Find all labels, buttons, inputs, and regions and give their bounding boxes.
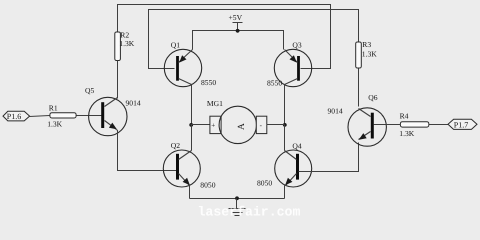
transistor Q1 <box>164 41 216 87</box>
resistor R3 <box>356 40 378 68</box>
wire: ground rail <box>190 198 285 200</box>
svg-text:8050: 8050 <box>200 181 215 190</box>
svg-text:R1: R1 <box>49 103 58 112</box>
wire: net A - R2 top across to Q3 base <box>118 5 331 69</box>
wire: R2 bottom to Q5 collector <box>117 61 119 99</box>
wire: Q4 collector to motor right node <box>284 125 286 151</box>
wire: Q5 emitter to Q2 base <box>117 130 177 171</box>
svg-text:laserfair.com: laserfair.com <box>198 204 301 219</box>
svg-text:9014: 9014 <box>328 107 343 116</box>
wire: net B - Q1 base across to R3 top <box>149 10 359 69</box>
watermark <box>198 204 301 219</box>
wire: R3 bottom to Q6 collector <box>358 69 360 107</box>
svg-text:P1.6: P1.6 <box>7 112 21 121</box>
transistor Q5 <box>85 86 141 136</box>
wire: Q6 base to R4 <box>374 124 401 126</box>
svg-text:Q5: Q5 <box>85 86 94 95</box>
svg-text:MG1: MG1 <box>207 99 223 108</box>
wire: motor terminal to right node <box>267 124 285 126</box>
junction: ground node <box>235 196 239 200</box>
svg-text:Q2: Q2 <box>171 141 180 150</box>
resistor R4 <box>399 112 429 139</box>
junction: motor right node <box>283 123 287 127</box>
ground <box>229 199 246 216</box>
wire: Q4 base to Q6 emitter <box>299 143 359 172</box>
svg-text:R3: R3 <box>362 40 371 49</box>
power +5V symbol <box>229 13 243 30</box>
port P1.6 <box>3 111 30 121</box>
wire: +5V rail to Q1 and Q3 emitters <box>193 31 284 50</box>
transistor Q4 <box>257 142 312 188</box>
svg-text:9014: 9014 <box>126 99 141 108</box>
transistor Q2 <box>163 141 215 189</box>
svg-text:Q3: Q3 <box>292 41 301 50</box>
wire: Q2 collector to motor left node <box>191 125 193 151</box>
resistor R1 <box>47 103 76 128</box>
wire: left node to motor terminal <box>191 124 210 126</box>
svg-text:1.3K: 1.3K <box>399 129 414 138</box>
svg-text:P1.7: P1.7 <box>454 120 468 129</box>
transistor Q3 <box>267 41 312 88</box>
svg-text:1.3K: 1.3K <box>362 50 377 59</box>
wire: R4 to P1.7 <box>429 124 449 126</box>
wire: R1 to Q5 base <box>77 115 102 117</box>
svg-text:R4: R4 <box>400 112 409 121</box>
wire: P1.6 to R1 <box>30 116 50 117</box>
svg-text:+5V: +5V <box>229 13 243 22</box>
svg-text:1.3K: 1.3K <box>119 39 134 48</box>
svg-text:Q1: Q1 <box>171 41 180 50</box>
junction: +5V node <box>236 29 240 33</box>
svg-text:1.3K: 1.3K <box>47 119 62 128</box>
svg-text:8550: 8550 <box>201 78 216 87</box>
svg-text:Q6: Q6 <box>368 93 377 102</box>
wire: Q2 emitter to ground rail <box>189 186 191 199</box>
wire: Q1 collector to motor left node <box>191 85 193 125</box>
port P1.7 <box>448 119 477 129</box>
wire: Q4 emitter to ground rail <box>284 186 286 199</box>
svg-text:Q4: Q4 <box>292 142 301 151</box>
wire: Q3 collector to motor right node <box>284 85 286 125</box>
svg-text:8550: 8550 <box>267 79 282 88</box>
motor MG1 <box>207 99 267 144</box>
transistor Q6 <box>328 93 387 146</box>
junction: motor left node <box>189 123 193 127</box>
svg-text:A: A <box>237 123 247 130</box>
resistor R2 <box>115 31 135 61</box>
svg-text:8050: 8050 <box>257 179 272 188</box>
svg-text:+: + <box>211 122 215 130</box>
